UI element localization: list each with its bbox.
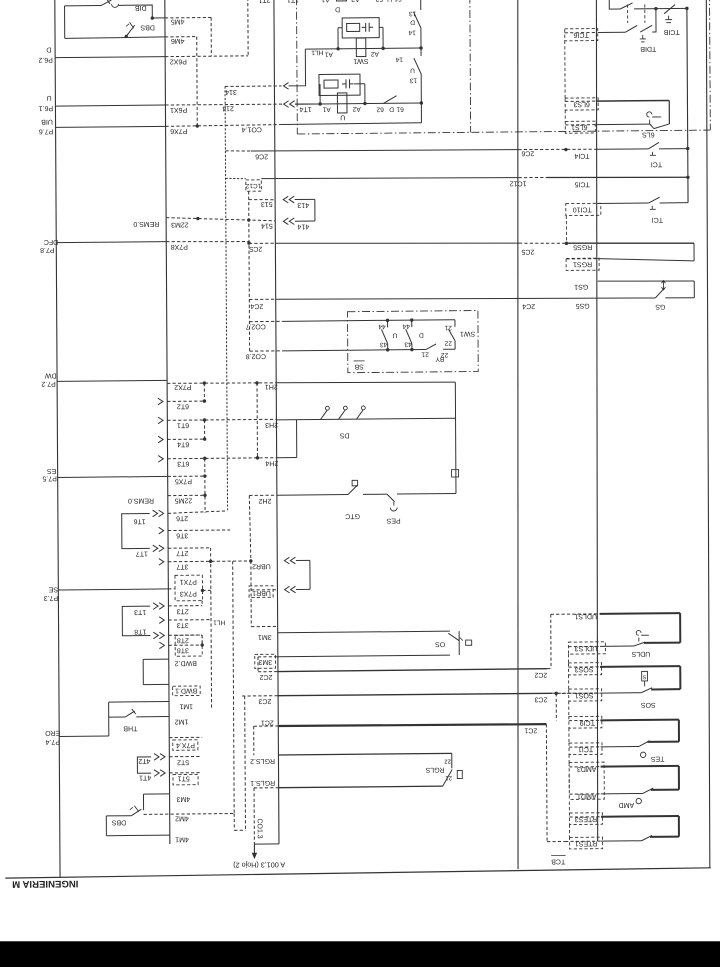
wire 1C12 TCI5 row [226,174,688,191]
svg-text:2T6: 2T6 [176,514,188,521]
connector 2T8 chevrons [153,632,164,639]
svg-text:A2: A2 [351,0,360,2]
wire AMD loop [678,766,680,790]
switch SOS [640,671,680,708]
svg-text:1T7: 1T7 [136,550,148,557]
svg-text:22M5: 22M5 [175,497,193,504]
connector 3T7 chevron [159,558,164,565]
wire 1T4 lead [295,104,320,113]
wire RTES1 row [565,839,642,847]
wire 6T2 row [167,401,204,409]
wire 5T1 row [169,773,201,782]
svg-text:TCI5: TCI5 [574,180,589,187]
svg-text:414: 414 [297,223,309,230]
svg-text:P7X6: P7X6 [170,127,187,134]
svg-text:TCI: TCI [652,216,663,223]
enclosure machine-room chain box [297,0,711,134]
label SE P7.3 [44,585,59,601]
contact U auxiliary 43-44 [378,320,397,350]
wire 1C12-CO2.8 dashed bus [248,191,251,351]
contact THB [123,709,137,731]
wire 4M3 drop [142,794,144,810]
svg-text:D: D [410,19,415,26]
label box 6LS3 [565,98,598,110]
svg-text:22M3: 22M3 [171,221,189,228]
snubber RC U [319,74,365,104]
svg-text:3M3: 3M3 [258,658,272,665]
connector 3T8 chevron [159,642,164,649]
svg-text:1T8: 1T8 [134,628,146,635]
wire 6LS3-6LS1 dashed link [564,110,566,121]
svg-text:P7X3: P7X3 [180,590,197,597]
svg-text:2C3: 2C3 [534,695,547,702]
node U right [420,101,423,104]
svg-text:44: 44 [378,323,386,330]
limit switch 6LS [642,100,670,137]
wire TCI6-6LS3 dashed link [564,41,566,98]
wire RGLS loop [451,753,453,768]
wire SOS1-TCB link [555,693,557,720]
svg-text:A 001,3 (Hojo 2): A 001,3 (Hojo 2) [233,860,285,869]
label ERO P7.4 [45,729,61,745]
svg-text:21: 21 [421,350,429,357]
wire 4M1 row [106,815,189,843]
wire 513 row [249,199,275,207]
wire UDLS3 row [568,644,634,652]
wire SOS loop [679,666,681,689]
wire 2H2-UBR2 link [249,495,251,561]
svg-text:P7.2: P7.2 [41,380,56,387]
node 2H4 j2 [256,456,259,459]
wire RGLS.2 row [250,753,452,764]
svg-text:TCI: TCI [651,160,662,167]
label ES P7.5 [42,467,57,481]
svg-text:2C5: 2C5 [249,245,262,252]
svg-text:P7.5: P7.5 [42,474,57,481]
wire TCI1 row [569,745,639,753]
label A1 SW1 [324,51,332,58]
wire 4M2 row [144,814,235,822]
wire 2T7 row [168,548,211,557]
wire bus TCI rail vertical [593,0,602,841]
svg-text:1C12: 1C12 [510,179,527,186]
wire 3M3 row [258,655,450,665]
wire 2T7-3T7 HL1 dashed bus [210,548,213,708]
label INGENIERIA M [12,878,78,890]
svg-text:BY: BY [435,355,444,362]
svg-text:SOS1: SOS1 [575,692,594,699]
svg-text:2C2: 2C2 [260,673,273,680]
wire left border vertical [55,0,60,878]
wire 2C2-UDLS1 riser [550,614,552,668]
node U-aux 43 [386,348,389,351]
svg-text:UBR2: UBR2 [252,562,271,569]
wire 314 row [225,86,282,95]
wire right outer border vertical [705,0,712,868]
svg-text:P7X8: P7X8 [171,243,188,250]
contact RGLS [425,758,462,787]
svg-text:SW1: SW1 [353,57,368,64]
wire BWD.1 row [143,684,197,694]
svg-text:5T2: 5T2 [177,758,189,765]
wire 414 lead [295,220,315,222]
connector UBR2 chevrons [284,557,295,564]
wire 3T7 UBR2 row [168,561,271,570]
wire UDLS loop [679,613,681,643]
svg-text:2C1: 2C1 [261,719,274,726]
wire P7X3-2T3 link [201,601,203,606]
wire label-column dashed edge [568,654,569,837]
wire 2C1 row [254,716,547,736]
node 2C5 junction [247,241,250,244]
label box 5T1 [173,774,198,785]
svg-text:A1: A1 [321,0,330,3]
svg-text:1T3: 1T3 [134,608,146,615]
svg-text:1M2: 1M2 [175,718,189,725]
svg-text:214: 214 [222,104,234,111]
svg-text:TCI4: TCI4 [574,152,589,159]
svg-text:SOS: SOS [641,701,656,708]
wire P7X5 ES row [58,476,205,485]
contact DIB [64,0,146,12]
contact D auxiliary [408,0,421,48]
svg-text:5T1: 5T1 [178,774,190,781]
svg-text:TCB: TCB [551,857,565,864]
wire TDIB riser [652,9,656,32]
wire TES loop [678,720,680,742]
wire 6T2-P7X2 link [203,383,205,401]
svg-text:DW: DW [45,372,57,379]
svg-text:REMS.0: REMS.0 [133,220,159,227]
wire RGS loop right [693,243,695,261]
wire TCI10-RGS5 dashed link [565,216,567,244]
component BWD loop [142,659,144,684]
wire RGS1 row [567,258,695,268]
svg-text:13: 13 [409,77,417,84]
svg-text:513: 513 [261,200,273,207]
wire 4M5-P6X2 dashed link [210,17,212,56]
wire 44 row [377,319,455,322]
node TCI4 rail junction [686,147,689,150]
svg-text:P7X1: P7X1 [180,578,197,585]
node U-aux 44 [386,319,389,322]
node U A2 [363,102,366,105]
svg-text:CO2.8: CO2.8 [246,352,266,359]
label box BWD.1 [173,686,201,696]
contact TDI top [620,0,633,9]
svg-text:TDIB: TDIB [640,45,656,52]
wire 6T3-2T6 link [204,458,206,513]
connector 6T1 chevron [158,417,163,424]
node 2H1 j2 [255,381,258,384]
wire 4M6-P7X6 dashed link [196,37,199,126]
svg-text:4M2: 4M2 [175,814,189,821]
svg-text:TCI10: TCI10 [573,205,592,212]
node 2C3 SOS1 junction [554,692,557,695]
label CO1.3 vertical [256,818,263,838]
limit switch UDLS [631,630,680,657]
svg-text:2C3: 2C3 [258,697,271,704]
label box TCI10 [566,203,601,215]
svg-text:RGLS.2: RGLS.2 [250,757,275,764]
switch DS 3-pole [320,406,365,439]
svg-text:RTES3: RTES3 [575,815,598,822]
svg-text:DBS: DBS [140,23,155,30]
label box 1C12 [245,180,261,191]
node 3T8 junction [200,643,203,646]
svg-text:SE: SE [48,585,58,592]
svg-text:BWD.2: BWD.2 [175,659,197,666]
wire AMD1 row [569,792,643,800]
pushbutton PES [386,494,401,524]
svg-text:SW1: SW1 [460,330,475,337]
label box TCI6 [565,29,598,41]
wire bus 1M rail vertical [165,0,170,844]
wire DIB box bottom [65,37,121,40]
lamp HL1 label [311,49,323,56]
wire GS loop right [693,281,695,298]
node 6T2 junction [203,399,206,402]
component brake rect [452,470,459,477]
connector 6T2 chevron [158,398,163,405]
svg-text:21: 21 [444,324,452,331]
svg-text:1T6: 1T6 [133,517,145,524]
node 6T4 junction [203,437,206,440]
label SB [354,361,365,370]
svg-text:21: 21 [445,774,452,780]
label A2 SW1 [370,50,378,57]
wire 2C2 row [258,669,551,681]
wire net-314 dashed bus [225,86,228,509]
svg-text:6LS3: 6LS3 [573,100,589,107]
svg-text:P6X1: P6X1 [170,106,187,113]
label D P6.2 [38,46,53,63]
svg-text:6T1: 6T1 [177,421,189,428]
label D coil designator [335,5,340,12]
svg-text:P7.4: P7.4 [45,738,60,745]
wire 4M5 row [152,17,211,25]
wire 3M3-2C2 link [257,657,259,672]
node 6T1 junction [203,418,206,421]
coil U [337,93,347,120]
svg-text:3T3: 3T3 [177,621,189,628]
svg-text:A2: A2 [370,50,378,57]
svg-text:TES: TES [650,755,664,762]
switch GS [655,280,666,309]
wire 2T8-3T8 link [201,635,203,645]
label HL1 mid [213,619,225,626]
svg-text:THB: THB [123,724,137,731]
wire 2C1-RGLS.2 link [253,726,255,755]
svg-text:A1: A1 [324,51,332,58]
wire BWD.2 row [143,659,197,667]
label box UBR1 [249,586,273,598]
svg-text:D: D [419,331,424,338]
wire SW1 coil row [305,48,421,49]
wire DBS link [106,815,131,817]
label box RTES1 [570,837,603,849]
wire bus 2C rail vertical [274,0,279,844]
svg-text:AMD1: AMD1 [577,792,597,799]
node DBS junction [125,35,128,38]
svg-text:P7X5: P7X5 [175,477,192,484]
node 22M3 junction [196,217,199,220]
wire 314-HL1 riser [288,49,305,86]
svg-text:2H3: 2H3 [265,421,278,428]
node D-aux 43 [410,348,413,351]
svg-text:62: 62 [376,106,384,113]
svg-text:14: 14 [408,29,416,36]
svg-text:P7.8: P7.8 [40,246,55,253]
label 1C12 right [510,179,527,186]
svg-text:RGS5: RGS5 [573,243,592,250]
wire P6X1 214 row [55,104,282,114]
wire P7X8 row [56,241,249,251]
svg-text:DBS: DBS [111,818,126,825]
wire UBR loop [309,560,311,589]
wire 2H3-DS riser [296,420,298,458]
loop 1T3 1T8 [122,606,150,636]
node D-aux 44 [410,318,413,321]
wire 6T4 row [167,439,204,447]
node UBR2 junction [249,559,252,562]
svg-text:BWD.1: BWD.1 [175,687,197,694]
wire 1M1 row [109,701,193,710]
svg-text:44: 44 [402,323,410,330]
wire 43 row [374,348,455,351]
wire P7X6 CO1.4 row [56,123,422,136]
svg-text:D: D [335,5,340,12]
label box TCI9 [569,716,602,728]
svg-text:ES: ES [47,467,57,474]
svg-text:1T4: 1T4 [300,105,312,112]
svg-text:UDLS1: UDLS1 [574,612,597,619]
svg-text:U: U [340,113,345,120]
svg-text:TCI6: TCI6 [574,31,589,38]
wire 2C5 RGS5 row [249,239,694,257]
wire 6LS1 row [565,123,650,131]
svg-text:P6.1: P6.1 [39,104,54,111]
connector 5T2 chevrons [154,753,165,760]
svg-text:U: U [392,332,397,339]
node P7X5 junction [203,474,206,477]
wire 4M6 row [121,37,197,45]
wire 3T6 row [168,530,230,539]
svg-text:D: D [46,46,51,53]
svg-text:2T3: 2T3 [177,607,189,614]
svg-text:RGS1: RGS1 [573,260,592,267]
wire 2H1-2H2 riser [454,382,457,493]
wire 6T1-6T4 link [204,420,206,439]
node RGS5 junction [565,242,568,245]
svg-text:4M3: 4M3 [176,795,190,802]
label box SOS3 [569,663,602,675]
label top row terminals [258,0,402,3]
node right rail junction [685,7,688,10]
wire SOS3 row [569,665,681,673]
wire right supply rail top [687,8,688,202]
wire UDLS1 row [551,612,680,620]
node 2H1 j1 [203,381,206,384]
wire 413 lead [295,198,315,200]
node SW1 A2 [381,47,384,50]
contact TCI upper [648,142,662,167]
label box AMD3 AMD1 [569,762,604,799]
svg-text:DS: DS [339,432,349,439]
label box RGS1 [566,258,599,270]
svg-text:U: U [410,67,415,74]
svg-text:6T3: 6T3 [177,460,189,467]
svg-text:1M1: 1M1 [179,702,193,709]
svg-text:14: 14 [395,56,403,63]
svg-text:INGENIERIA M: INGENIERIA M [12,878,78,890]
wire GS1 row [574,280,694,290]
svg-text:2H2: 2H2 [258,497,271,504]
svg-text:2T7: 2T7 [176,549,188,556]
svg-text:P7X.4: P7X.4 [176,741,195,748]
svg-text:62: 62 [375,0,383,2]
label box 3M3 [255,654,276,668]
wire CO1.4 riser [420,103,422,123]
contact TES [639,740,679,762]
node 4M5 junction [151,16,154,19]
svg-text:2C6: 2C6 [521,149,534,156]
svg-text:2H1: 2H1 [265,383,278,390]
wire P6X2 dashed riser [247,0,249,56]
wire SOS1 row [556,691,641,699]
label TCB [551,855,566,864]
label U P6.1 [39,94,54,111]
wire RGLS.1 row [250,777,443,788]
svg-text:4T1: 4T1 [139,774,151,781]
wire 2T6 row [168,511,228,522]
loop 413-414 [314,199,316,221]
svg-text:REMS.0: REMS.0 [128,497,154,504]
contact TDIB blade 1 [625,4,637,32]
wire 2H3 6T1 row [167,418,455,429]
svg-text:2C2: 2C2 [534,671,547,678]
svg-text:4M6: 4M6 [171,37,185,44]
connector 3T6 chevron [159,527,164,534]
connector 314 chevron [284,83,289,90]
node 514 junction [247,218,250,221]
wire 2H2 row [249,493,456,504]
svg-text:DFC: DFC [44,238,58,245]
wire 2C6 TCI4 row [225,146,687,162]
wire U coil row [295,103,421,104]
connector 5T1 chevrons [154,770,165,777]
wire 2T8 row [169,635,203,644]
svg-text:2T8: 2T8 [177,636,189,643]
svg-text:43: 43 [380,341,388,348]
node 6T3 junction [203,457,206,460]
label box 6LS1 [565,121,595,133]
wire bus3 bottom corner [254,843,279,845]
contact TCIB [663,5,679,36]
wire CO1.3 arrow [252,844,257,859]
loop 4T2 4T1 [137,757,151,781]
label box RTES3 [569,813,602,825]
wire RTES loop [678,816,680,837]
svg-text:P6X2: P6X2 [170,57,187,64]
label DFC P7.8 [40,238,58,253]
svg-text:GS: GS [655,303,665,310]
svg-text:514: 514 [261,222,273,229]
svg-text:P7X2: P7X2 [174,383,191,390]
wire 2H4 6T3 row [168,458,297,468]
wire GS5 2C4 row [249,295,694,312]
svg-text:3T7: 3T7 [176,563,188,570]
